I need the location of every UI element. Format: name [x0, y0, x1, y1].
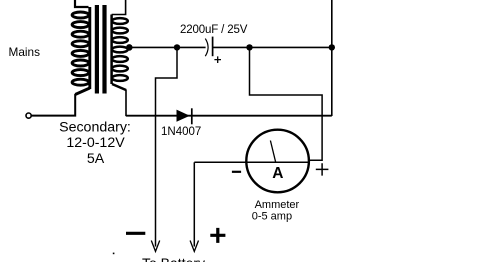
wire diode rail: [126, 115, 332, 117]
node J2 (junction 249.5,47): [246, 44, 252, 50]
wire secondary top lead: [112, 0, 126, 15]
node center tap: [126, 44, 133, 51]
wire J2 to ammeter plus terminal: [250, 47, 323, 160]
svg-text:12-0-12V: 12-0-12V: [66, 135, 125, 151]
wire J1 to negative output arrow: [156, 47, 178, 246]
transformer T1 primary winding: [72, 7, 90, 95]
svg-text:A: A: [272, 165, 283, 182]
diode D1 cathode bar: [191, 108, 193, 124]
wire center tap to capacitor: [129, 46, 205, 48]
capacitor C1 straight plate: [212, 37, 214, 57]
ammeter needle: [270, 141, 275, 163]
wire capacitor to node J3: [213, 46, 332, 48]
arrowhead negative output: [151, 241, 159, 252]
capacitor C1 polarity plus: [214, 56, 221, 63]
svg-text:1N4007: 1N4007: [161, 126, 201, 138]
wire ammeter minus lead and meter scale line: [194, 161, 309, 163]
label Secondary: 12-0-12V 5A: [59, 120, 131, 168]
arrowhead positive output: [190, 241, 198, 252]
label Ammeter 0-5 amp: [252, 199, 300, 222]
label minus at ammeter: [232, 171, 241, 173]
stray mark: [113, 253, 115, 255]
label big plus output polarity: [210, 228, 225, 243]
node J1 (junction 177,47): [174, 44, 180, 50]
wire secondary bottom lead: [125, 90, 127, 117]
diode D1 triangle: [177, 110, 190, 122]
svg-text:Secondary:: Secondary:: [59, 120, 131, 136]
svg-text:To Battery: To Battery: [142, 255, 205, 262]
wire J3 top lead: [331, 0, 333, 47]
svg-text:0-5 amp: 0-5 amp: [252, 210, 292, 222]
svg-text:2200uF / 25V: 2200uF / 25V: [180, 24, 248, 36]
label plus at ammeter: [316, 163, 329, 175]
svg-text:5A: 5A: [87, 151, 105, 167]
wire J3 down to diode rail: [331, 47, 333, 116]
transformer core: [95, 5, 99, 94]
transformer T1 secondary winding: [112, 15, 128, 91]
node J3 (junction 331.8,47): [329, 44, 335, 50]
terminal mains (open circle): [26, 113, 31, 118]
capacitor C1 (2200uF/25V) curved plate: [205, 39, 208, 57]
wire primary bottom lead: [32, 94, 76, 116]
label big minus output polarity: [126, 232, 145, 235]
ammeter M1 body: [246, 130, 309, 193]
svg-text:Mains: Mains: [9, 45, 41, 59]
wire primary top lead: [75, 0, 89, 7]
wire ammeter minus to positive output arrow: [193, 162, 195, 246]
